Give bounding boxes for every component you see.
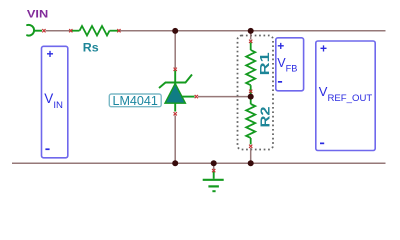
svg-text:LM4041: LM4041 bbox=[112, 94, 158, 108]
resistor R1 bbox=[246, 43, 255, 95]
junction dot top diode bbox=[172, 28, 178, 34]
svg-text:VIN: VIN bbox=[27, 9, 48, 21]
pin mark diode bottom bbox=[174, 112, 177, 115]
svg-text:VREF_OUT: VREF_OUT bbox=[319, 84, 373, 104]
pin mark R1 top bbox=[249, 40, 252, 43]
pin mark connector bbox=[42, 29, 45, 32]
junction dot bottom diode bbox=[172, 160, 178, 166]
pin mark ground bbox=[212, 169, 215, 172]
svg-text:Rs: Rs bbox=[83, 41, 99, 55]
ground bbox=[203, 172, 224, 192]
svg-text:R2: R2 bbox=[258, 107, 273, 128]
wire bottom rail bbox=[12, 162, 386, 164]
pin mark R2 bottom bbox=[249, 145, 252, 148]
pin mark Rs left bbox=[69, 29, 72, 32]
voltmeter VIN box bbox=[42, 46, 68, 158]
svg-text:VIN: VIN bbox=[44, 91, 63, 111]
voltmeter VFB box bbox=[276, 38, 304, 91]
diode U1 LM4041 (shunt reference) bbox=[159, 71, 195, 112]
junction dot bottom ground bbox=[211, 160, 217, 166]
wire top rail left segment bbox=[46, 30, 71, 32]
wire R1 top stub bbox=[250, 31, 252, 40]
junction dot bottom R2 bbox=[248, 160, 254, 166]
wire diode branch lower bbox=[174, 116, 176, 164]
wire connector pin stub bbox=[35, 30, 43, 32]
pin mark diode right bbox=[195, 95, 198, 98]
svg-text:+: + bbox=[320, 41, 327, 55]
pin mark Rs right bbox=[117, 29, 120, 32]
svg-text:+: + bbox=[277, 39, 284, 53]
pin mark diode top bbox=[174, 68, 177, 71]
wire diode branch upper bbox=[174, 31, 176, 68]
wire ground stub bbox=[213, 163, 215, 169]
junction dot feedback node bbox=[248, 94, 254, 100]
connector J1 (input pin) bbox=[27, 25, 34, 36]
label LM4041 bbox=[109, 94, 161, 108]
wire R2 bottom stub bbox=[250, 148, 252, 163]
wire top rail right segment bbox=[119, 30, 386, 32]
resistor Rs bbox=[71, 26, 119, 35]
dotted box (R1 R2 divider) bbox=[238, 36, 274, 150]
svg-text:+: + bbox=[46, 47, 53, 61]
resistor R2 bbox=[246, 99, 255, 144]
pin mark R1 bottom bbox=[249, 90, 252, 93]
wire feedback horizontal bbox=[198, 96, 251, 98]
svg-text:VFB: VFB bbox=[277, 56, 297, 73]
junction dot top R1 bbox=[248, 28, 254, 34]
svg-text:R1: R1 bbox=[257, 52, 272, 75]
voltmeter VREF_OUT box bbox=[316, 41, 375, 151]
